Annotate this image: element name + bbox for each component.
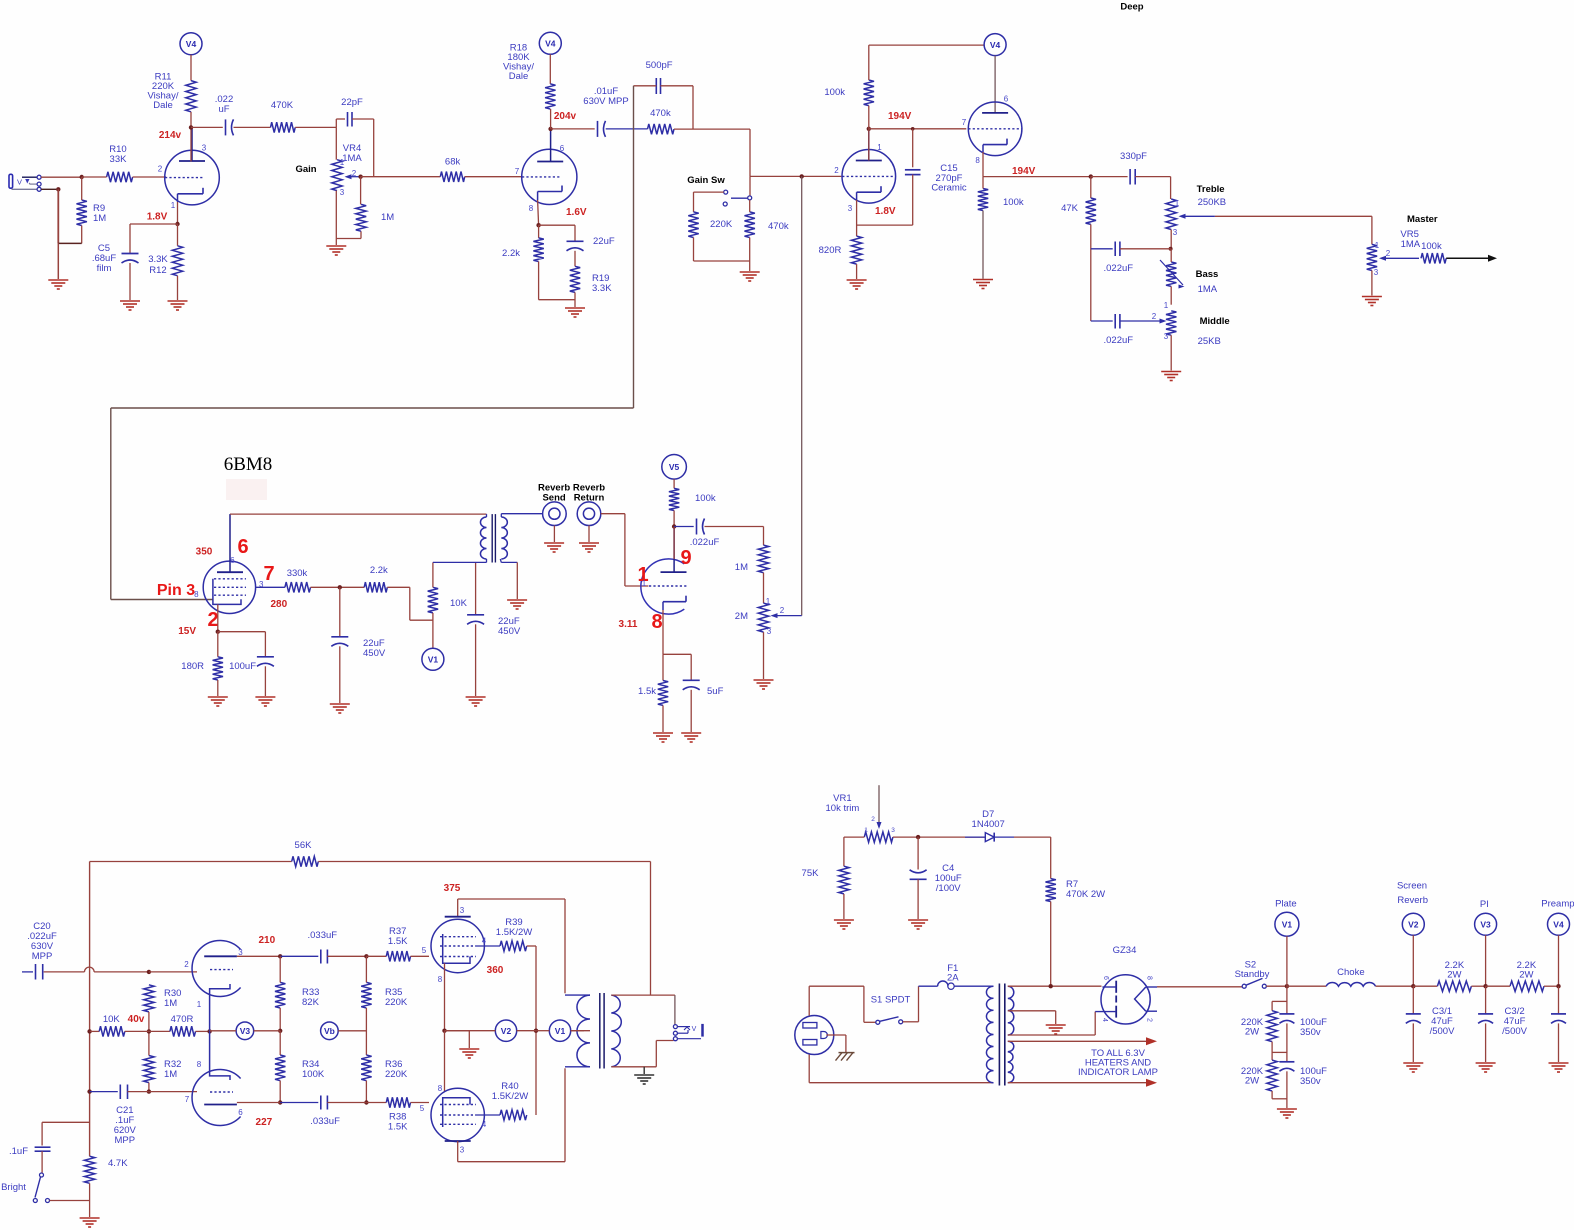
ground	[326, 245, 346, 247]
wire	[190, 112, 192, 162]
wire	[335, 127, 337, 159]
svg-text:330pF: 330pF	[1120, 151, 1147, 162]
capacitor .022uF coupling	[225, 119, 227, 135]
node 194V	[867, 127, 871, 131]
ground	[330, 703, 350, 705]
node tone stack input	[1089, 174, 1093, 178]
wire	[750, 175, 841, 177]
wire	[694, 191, 724, 193]
wire cathode link	[444, 1031, 446, 1092]
input jack J1	[9, 174, 13, 188]
node	[364, 954, 368, 958]
wire output arrow	[1446, 257, 1488, 259]
svg-text:V4: V4	[990, 40, 1001, 50]
svg-text:Dale: Dale	[509, 71, 529, 82]
ground	[466, 696, 486, 698]
resistor 820R	[851, 236, 861, 264]
capacitor 22uF 450V filter	[339, 587, 341, 636]
svg-text:194V: 194V	[1012, 166, 1036, 177]
capacitor .033uF lower	[320, 1096, 322, 1110]
wire	[81, 177, 83, 200]
svg-text:2: 2	[1152, 312, 1157, 321]
resistor R9 1M	[77, 200, 87, 226]
node	[147, 970, 151, 974]
ground	[1046, 1024, 1066, 1026]
wire cathode upper	[444, 963, 446, 1030]
svg-text:194V: 194V	[888, 111, 912, 122]
wire	[149, 1091, 197, 1093]
wire screen	[476, 945, 500, 947]
svg-text:8: 8	[197, 1060, 202, 1069]
wire 6.3V top	[1008, 1040, 1146, 1042]
capacitor C5 .68uF film	[122, 253, 139, 255]
svg-text:Ceramic: Ceramic	[931, 183, 967, 194]
resistor R19 3.3K	[570, 266, 580, 292]
wire secondary top	[611, 994, 675, 996]
svg-text:15V: 15V	[178, 626, 196, 637]
resistor R30 1M	[144, 985, 154, 1012]
capacitor 330pF treble	[1129, 169, 1131, 185]
resistor R40 1.5K/2W	[500, 1110, 527, 1120]
svg-text:100k: 100k	[1421, 241, 1442, 252]
svg-text:2A: 2A	[947, 973, 959, 984]
resistor R39 1.5K/2W	[500, 941, 527, 951]
capacitor C4 100uF/100V	[917, 837, 919, 869]
wire	[327, 955, 366, 957]
wire	[387, 586, 410, 588]
resistor 100k plate load	[864, 80, 874, 106]
ground	[544, 542, 564, 544]
node	[916, 835, 920, 839]
svg-text:Bass: Bass	[1196, 269, 1219, 280]
wire plate V3b	[237, 1102, 280, 1104]
svg-text:630V MPP: 630V MPP	[583, 96, 628, 107]
resistor 47K	[1090, 177, 1092, 198]
ground	[847, 279, 867, 281]
svg-text:1: 1	[1375, 241, 1380, 250]
svg-text:1.5K: 1.5K	[388, 936, 408, 947]
resistor R36 220K	[361, 1055, 371, 1081]
svg-text:7: 7	[962, 118, 967, 127]
transformer output	[565, 994, 590, 996]
triode V1a (first stage)	[165, 150, 220, 205]
node	[87, 1029, 91, 1033]
svg-text:Dale: Dale	[153, 100, 173, 111]
svg-text:7: 7	[515, 167, 520, 176]
resistor R38 1.5K	[366, 1102, 386, 1104]
triode V3b phase inverter	[192, 1070, 241, 1126]
node plate V1a	[189, 125, 193, 129]
svg-text:Choke: Choke	[1337, 967, 1364, 978]
svg-text:2: 2	[1146, 1018, 1153, 1022]
svg-text:.022uF: .022uF	[1104, 335, 1134, 346]
potentiometer Bass 1MA	[1166, 262, 1176, 286]
node	[278, 1100, 282, 1104]
wire long vertical to 2M pot	[801, 176, 803, 615]
svg-text:100K: 100K	[302, 1069, 325, 1080]
wire	[1170, 230, 1172, 249]
triode V3a phase inverter	[192, 940, 241, 996]
svg-text:8: 8	[438, 975, 443, 984]
wire	[674, 128, 750, 130]
wire	[365, 1081, 367, 1103]
svg-text:6: 6	[238, 1108, 243, 1117]
svg-text:.022uF: .022uF	[690, 537, 720, 548]
wire	[177, 276, 179, 300]
svg-text:350v: 350v	[1300, 1076, 1321, 1087]
svg-text:1N4007: 1N4007	[972, 819, 1005, 830]
svg-text:V: V	[692, 1026, 697, 1033]
node	[672, 524, 676, 528]
node	[147, 1089, 151, 1093]
wire plug ground	[826, 1034, 846, 1036]
node	[278, 1029, 282, 1033]
node input junction	[80, 175, 84, 179]
svg-text:227: 227	[256, 1117, 273, 1128]
ground	[565, 307, 585, 309]
resistor 470K grid	[271, 122, 296, 132]
svg-text:250KB: 250KB	[1198, 197, 1227, 208]
wire	[551, 128, 595, 130]
wire cathode V1a	[177, 202, 179, 224]
svg-text:4.7K: 4.7K	[108, 1158, 128, 1169]
wire	[705, 526, 764, 528]
resistor 470k	[745, 212, 755, 238]
wire	[352, 118, 374, 120]
node	[364, 1100, 368, 1104]
wire	[527, 945, 536, 947]
svg-text:Reverb: Reverb	[1397, 895, 1428, 906]
ground	[80, 1217, 100, 1219]
choke	[1287, 985, 1326, 987]
svg-text:2: 2	[834, 166, 839, 175]
svg-text:V2: V2	[501, 1026, 512, 1036]
resistor 330k	[256, 586, 285, 588]
svg-text:10K: 10K	[450, 598, 468, 609]
wire cathode follower out	[982, 152, 984, 177]
wire	[327, 1102, 366, 1104]
svg-text:Gain Sw: Gain Sw	[687, 175, 725, 186]
filter 220K/100uF stack	[1286, 986, 1288, 1014]
svg-text:56K: 56K	[295, 840, 313, 851]
wire	[538, 262, 540, 300]
svg-text:.033uF: .033uF	[310, 1116, 340, 1127]
wire HV center tap	[1008, 1010, 1056, 1012]
supply tap V5	[662, 455, 687, 480]
ground	[653, 732, 673, 734]
svg-text:1.5K: 1.5K	[388, 1122, 408, 1133]
svg-text:8: 8	[975, 156, 980, 165]
wire	[606, 128, 648, 130]
ground	[1549, 1062, 1569, 1064]
svg-text:1.5K/2W: 1.5K/2W	[492, 1091, 528, 1102]
wire plate to transformer	[230, 513, 487, 515]
svg-text:2W: 2W	[1447, 970, 1461, 981]
svg-text:350: 350	[196, 547, 213, 558]
wire cathode V2a	[856, 200, 858, 236]
capacitor C3/1 47uF/500V	[1412, 986, 1414, 1014]
svg-text:3: 3	[1374, 268, 1379, 277]
resistor 4.7K	[84, 1156, 94, 1183]
wire	[148, 1083, 150, 1092]
wire HV bottom	[1008, 1034, 1095, 1036]
wire return to grid	[601, 513, 625, 515]
resistor R34 100K	[275, 1055, 285, 1081]
wire	[673, 479, 675, 488]
pentode lower output tube	[431, 1088, 484, 1141]
potentiometer VR5 1MA Master	[1367, 244, 1377, 270]
wire	[445, 1030, 470, 1032]
potentiometer Treble 250KB	[1166, 199, 1176, 230]
ground	[208, 696, 228, 698]
svg-text:6BM8: 6BM8	[224, 454, 273, 475]
svg-text:R12: R12	[149, 265, 166, 276]
svg-text:Gain: Gain	[295, 164, 316, 175]
ground	[459, 1048, 479, 1050]
supply node V1	[549, 1020, 570, 1041]
capacitor 22uF 450V reverb filter	[467, 614, 484, 616]
svg-text:Screen: Screen	[1397, 881, 1427, 892]
wire	[148, 1012, 150, 1056]
wire	[365, 956, 367, 982]
resistor R12 3.3K	[177, 224, 179, 246]
svg-text:film: film	[97, 263, 112, 274]
svg-text:1: 1	[864, 827, 868, 834]
svg-text:1: 1	[340, 158, 345, 167]
resistor 1M	[758, 545, 768, 573]
resistor R18 180K	[545, 84, 555, 109]
resistor 68k grid stopper	[440, 172, 464, 182]
capacitor preamp filter	[1558, 986, 1560, 1014]
wire	[549, 54, 551, 84]
svg-text:22pF: 22pF	[341, 97, 363, 108]
svg-text:470K 2W: 470K 2W	[1066, 889, 1105, 900]
svg-text:6: 6	[237, 536, 248, 558]
ground	[908, 919, 928, 921]
wire feedback loop vertical	[633, 86, 635, 408]
switch Gain Sw	[724, 190, 728, 194]
svg-text:4: 4	[482, 937, 487, 946]
wire	[893, 836, 985, 838]
svg-text:/500V: /500V	[1502, 1026, 1527, 1037]
svg-text:V4: V4	[545, 39, 556, 49]
capacitor .022uF bass	[1091, 248, 1113, 250]
svg-text:450V: 450V	[363, 648, 386, 659]
wire	[279, 1031, 281, 1055]
svg-text:1: 1	[171, 201, 176, 210]
wire cathode	[662, 610, 664, 654]
resistor R37 1.5K	[366, 955, 386, 957]
ground	[834, 919, 854, 921]
wire plate V3a	[237, 955, 280, 957]
capacitor 22uF bypass	[574, 225, 576, 241]
wire	[843, 894, 845, 919]
wire	[191, 126, 223, 128]
wire	[295, 126, 336, 128]
capacitor .022uF middle	[1091, 320, 1113, 322]
ground	[1403, 1062, 1423, 1064]
bracket cathodes	[210, 984, 230, 1080]
svg-text:3: 3	[891, 827, 895, 834]
wire	[41, 176, 82, 178]
wire	[279, 956, 281, 982]
ground	[1362, 296, 1382, 298]
wire	[749, 200, 751, 212]
svg-text:1: 1	[197, 1000, 202, 1009]
svg-text:22uF: 22uF	[593, 236, 615, 247]
svg-text:1.5k: 1.5k	[638, 686, 656, 697]
supply node V1	[422, 648, 444, 670]
svg-text:5: 5	[422, 946, 427, 955]
svg-text:100k: 100k	[695, 493, 716, 504]
wire HV top	[1008, 985, 1102, 987]
resistor 100k output	[1421, 253, 1446, 263]
node	[278, 954, 282, 958]
svg-text:1MA: 1MA	[342, 153, 362, 164]
wire	[808, 986, 810, 1015]
transformer reverb driver	[480, 517, 486, 559]
node	[1556, 984, 1560, 988]
svg-text:V4: V4	[186, 39, 197, 49]
svg-text:Pin 3: Pin 3	[157, 582, 195, 599]
svg-text:3: 3	[767, 627, 772, 636]
wire	[89, 1183, 91, 1217]
ground	[754, 679, 774, 681]
wire	[1090, 224, 1092, 321]
plug AC mains	[795, 1016, 834, 1055]
supply node V2	[495, 1020, 516, 1041]
wire cathode	[217, 604, 219, 631]
svg-text:360: 360	[487, 965, 504, 976]
capacitor 5uF	[690, 654, 692, 680]
capacitor C3/2 47uF/500V	[1485, 986, 1487, 1014]
svg-text:.033uF: .033uF	[308, 930, 338, 941]
resistor R10 33K	[107, 172, 133, 182]
svg-text:V1: V1	[428, 655, 439, 665]
svg-text:3: 3	[848, 204, 853, 213]
wire	[234, 126, 271, 128]
wire	[868, 45, 870, 80]
wire center tap	[571, 1030, 590, 1032]
svg-text:1: 1	[1175, 199, 1180, 208]
wire	[634, 85, 657, 87]
resistor 1M	[356, 204, 366, 231]
node	[87, 1089, 91, 1093]
svg-text:100uF: 100uF	[229, 661, 256, 672]
svg-text:220K: 220K	[710, 219, 733, 230]
supply tap V4 (to preamp B+)	[180, 33, 202, 55]
supply node Vb	[321, 1022, 339, 1040]
resistor 470k	[648, 124, 675, 134]
svg-text:68k: 68k	[445, 157, 461, 168]
svg-text:6: 6	[560, 144, 565, 153]
svg-text:Plate: Plate	[1275, 899, 1297, 910]
wire	[868, 106, 870, 161]
transformer power	[986, 986, 993, 1082]
svg-text:1M: 1M	[164, 1069, 177, 1080]
wire	[475, 562, 477, 614]
wire	[574, 292, 576, 307]
ground	[579, 542, 599, 544]
resistor 56K feedback	[90, 861, 292, 863]
node to reverb pot	[800, 174, 804, 178]
pentode upper output tube	[431, 919, 484, 972]
capacitor .033uF upper	[320, 950, 322, 964]
svg-text:470k: 470k	[768, 221, 789, 232]
wire	[361, 176, 441, 178]
wire	[763, 632, 765, 679]
wire	[1170, 249, 1172, 262]
svg-text:1M: 1M	[381, 212, 394, 223]
node	[147, 1029, 151, 1033]
wire with hop	[44, 971, 85, 973]
wire	[311, 586, 365, 588]
ground	[681, 732, 701, 734]
svg-text:8: 8	[529, 204, 534, 213]
wire	[217, 680, 219, 696]
svg-text:470k: 470k	[650, 108, 671, 119]
node plate supply	[1285, 984, 1289, 988]
svg-text:280: 280	[270, 599, 287, 610]
svg-text:.1uF: .1uF	[9, 1146, 28, 1157]
wire 6.3V bottom	[1008, 1082, 1146, 1084]
node	[1483, 984, 1487, 988]
svg-text:1M: 1M	[93, 213, 106, 224]
svg-text:1.6V: 1.6V	[566, 207, 587, 218]
wire	[1170, 335, 1172, 370]
svg-text:9: 9	[680, 547, 691, 569]
pentode 6BM8 output section	[203, 561, 255, 613]
resistor 10K	[428, 587, 438, 613]
svg-text:2: 2	[871, 816, 875, 823]
svg-text:V1: V1	[555, 1026, 566, 1036]
svg-text:3: 3	[1173, 228, 1178, 237]
svg-text:1MA: 1MA	[1401, 239, 1421, 250]
node	[1049, 984, 1053, 988]
wire	[125, 1030, 170, 1032]
svg-text:3.3K: 3.3K	[592, 283, 612, 294]
capacitor .022uF reverb out	[674, 526, 694, 528]
svg-text:V: V	[17, 178, 22, 187]
wire	[457, 1141, 459, 1162]
svg-text:1MA: 1MA	[1198, 284, 1218, 295]
ground	[1161, 371, 1181, 373]
svg-text:330k: 330k	[287, 568, 308, 579]
node	[442, 1029, 446, 1033]
svg-text:6: 6	[230, 556, 235, 565]
svg-text:820R: 820R	[819, 245, 842, 256]
svg-text:210: 210	[258, 935, 275, 946]
wire	[1215, 215, 1372, 217]
svg-text:Preamp: Preamp	[1541, 899, 1574, 910]
svg-text:1M: 1M	[164, 998, 177, 1009]
capacitor .01uF 630V MPP coupling	[597, 121, 599, 137]
svg-text:2M: 2M	[735, 611, 748, 622]
wire	[1371, 271, 1373, 296]
svg-text:3.11: 3.11	[619, 619, 638, 630]
wire	[149, 971, 197, 973]
resistor R7 470K 2W	[1046, 879, 1056, 902]
wire	[360, 177, 362, 205]
svg-text:3: 3	[340, 188, 345, 197]
svg-text:470R: 470R	[171, 1014, 194, 1025]
supply tap V4 (second stage)	[539, 32, 561, 54]
svg-text:5: 5	[420, 1104, 425, 1113]
wire	[411, 955, 430, 957]
svg-text:V3: V3	[1480, 919, 1491, 929]
svg-text:MPP: MPP	[115, 1135, 136, 1146]
svg-text:uF: uF	[218, 104, 229, 115]
